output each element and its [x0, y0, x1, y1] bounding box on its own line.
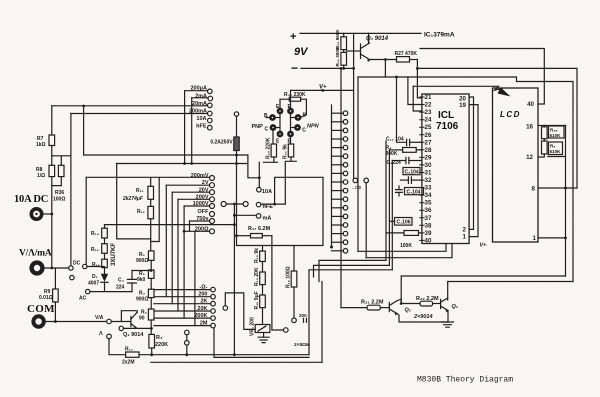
wire pin12 east: [548, 156, 566, 158]
transistor Q4 9014: [361, 43, 371, 62]
wire V terminal to wiper contact: [45, 267, 69, 269]
wire IC bottom rail B: [366, 244, 452, 258]
battery 9V plus rail: [300, 32, 369, 34]
svg-text:V/A: V/A: [95, 315, 104, 321]
contact hFE right: [256, 177, 323, 207]
svg-text:0.2A250V: 0.2A250V: [210, 140, 233, 146]
junction Q2 collector rail: [400, 302, 403, 305]
svg-text:16: 16: [526, 124, 533, 131]
svg-text:10A DC: 10A DC: [14, 194, 48, 205]
svg-text:Q₂: Q₂: [405, 308, 411, 314]
svg-text:C: C: [302, 128, 306, 134]
wire DC contact riser upper to fuse line: [84, 106, 248, 155]
wire L1 west: [319, 260, 386, 281]
svg-text:R27 470K: R27 470K: [395, 51, 418, 57]
svg-text:30: 30: [425, 162, 432, 169]
svg-text:10A: 10A: [262, 189, 272, 195]
svg-text:100Ω: 100Ω: [53, 197, 65, 203]
svg-text:C₇104: C₇104: [407, 190, 421, 196]
battery 9V minus rail: [301, 67, 354, 69]
wire left vertical c: [391, 161, 393, 270]
contact 2M: [154, 323, 215, 328]
svg-text:C₆224: C₆224: [387, 160, 401, 166]
wire pin16 east to railP riser: [544, 125, 565, 127]
wire battery mid tap to Q4 base: [347, 50, 361, 52]
resistor R31: [285, 137, 296, 204]
svg-text:hFE: hFE: [263, 204, 274, 210]
ground below VR1: [258, 337, 269, 342]
svg-text:+: +: [290, 31, 296, 43]
svg-text:Q₁ 9014: Q₁ 9014: [123, 332, 144, 338]
svg-text:R₁₅: R₁₅: [91, 247, 100, 253]
svg-text:2V: 2V: [202, 180, 209, 186]
resistor R33 510K: [538, 141, 547, 157]
ground Q2 Q3: [442, 322, 454, 327]
junction minus drop: [340, 67, 343, 70]
svg-text:200mA: 200mA: [189, 108, 207, 114]
svg-text:↔/10: ↔/10: [351, 185, 362, 190]
resistor R28 510K: [542, 126, 548, 142]
wire R18 bus: [237, 177, 324, 245]
svg-text:900Ω: 900Ω: [136, 297, 148, 303]
resistor R9: [53, 268, 59, 322]
contact 2mA: [192, 96, 213, 101]
capacitor C4 224: [128, 269, 153, 292]
svg-text:22: 22: [425, 102, 432, 109]
svg-text:LCD: LCD: [500, 110, 521, 119]
contact 200: [154, 294, 215, 299]
svg-text:220K: 220K: [155, 342, 168, 348]
resistor R26 860K: [341, 33, 347, 49]
contact 200V: [178, 197, 215, 202]
svg-text:2×8ΩM: 2×8ΩM: [294, 342, 310, 348]
transistor socket pad E2 left: [278, 132, 282, 136]
divider resistor R6: [148, 270, 154, 289]
svg-text:27: 27: [425, 139, 432, 146]
wire minus rail east: [417, 68, 577, 188]
svg-text:224: 224: [116, 285, 125, 291]
wire L3 west: [309, 270, 392, 355]
contact ohm top: [154, 287, 215, 292]
potentiometer VR1 200: [255, 325, 270, 338]
svg-text:3XU7KF: 3XU7KF: [111, 243, 117, 266]
contact 10A: [208, 118, 213, 123]
svg-text:2mA: 2mA: [195, 93, 207, 99]
svg-text:200: 200: [198, 292, 207, 298]
svg-text:2x2M: 2x2M: [122, 360, 135, 366]
svg-text:DC: DC: [73, 261, 81, 267]
svg-text:R₁₉ 100Ω: R₁₉ 100Ω: [286, 266, 292, 288]
contact 200mA: [71, 111, 212, 116]
junction bus bottom: [330, 246, 333, 249]
wire Q4 emitter to R27: [369, 59, 397, 61]
wire 200ohm drop: [194, 231, 196, 325]
svg-text:200V: 200V: [196, 194, 209, 200]
svg-text:-Ω-: -Ω-: [199, 284, 207, 290]
wire Q2 emitter to ground rail: [397, 314, 447, 323]
svg-text:R₂₁ 2.2M: R₂₁ 2.2M: [361, 300, 384, 306]
contact AC lower: [70, 275, 74, 279]
transistor socket pad E2 right: [288, 132, 292, 136]
svg-text:20V: 20V: [199, 187, 209, 193]
capacitor C6 224: [392, 157, 422, 163]
wire left vertical b: [388, 150, 390, 266]
wire socket C stub left: [275, 127, 280, 129]
svg-text:1/Ω: 1/Ω: [37, 173, 45, 179]
resistor R10 2x2M: [109, 339, 309, 358]
svg-text:9V: 9V: [294, 46, 309, 58]
wire R14 top rail to mA drop: [105, 224, 235, 226]
contact 200uA: [185, 89, 213, 94]
svg-text:750v: 750v: [196, 216, 209, 222]
svg-text:35: 35: [425, 200, 432, 207]
resistor R7: [49, 106, 55, 166]
wire V+ rail: [291, 89, 354, 91]
svg-text:−: −: [291, 61, 298, 75]
svg-text:B: B: [303, 113, 307, 119]
diode D1 4007: [87, 267, 132, 292]
resistor R22 2.2M: [401, 301, 440, 306]
svg-text:200K: 200K: [194, 313, 207, 319]
svg-text:V+: V+: [480, 243, 488, 249]
resistor R19 100: [291, 246, 297, 318]
capacitor C5 106 boxed: [389, 218, 412, 226]
resistor R18: [260, 246, 266, 273]
op-amp U1 ICL7106 box: [422, 94, 469, 244]
svg-text:32: 32: [425, 177, 432, 184]
resistor R4 220K: [149, 334, 155, 355]
svg-text:R₁₂: R₁₂: [137, 209, 145, 215]
contact 200K: [154, 316, 215, 321]
resistor R15b: [260, 295, 266, 325]
svg-text:2M: 2M: [200, 321, 208, 327]
wire 10A terminal to shunt: [44, 213, 52, 215]
contact wiper lower: [223, 293, 255, 356]
divider resistor R11: [148, 178, 154, 206]
wire pin21 stub: [417, 97, 422, 99]
svg-text:R₁₄: R₁₄: [91, 231, 100, 237]
resistor R23 100K: [386, 231, 422, 236]
svg-text:Q₃: Q₃: [452, 304, 458, 310]
junction V+: [321, 89, 324, 92]
resistor R36: [52, 156, 64, 186]
transistor Q3: [441, 298, 449, 313]
wire 1000V drop: [183, 206, 185, 318]
svg-text:V+: V+: [319, 85, 327, 91]
svg-text:40: 40: [527, 101, 534, 108]
junction minus-vplus: [352, 67, 355, 70]
transistor socket pad C right: [295, 125, 299, 129]
contact mid pair: [185, 330, 190, 355]
svg-text:R36: R36: [55, 190, 64, 196]
svg-text:AC: AC: [79, 296, 87, 302]
wire 20mA line: [52, 105, 206, 107]
svg-text:ICL: ICL: [438, 110, 454, 121]
svg-text:37: 37: [425, 215, 432, 222]
contact 20V: [172, 190, 214, 195]
svg-text:20K: 20K: [197, 306, 207, 312]
wire socket B stub left: [275, 117, 280, 119]
transistor Q1 9014: [111, 311, 137, 329]
svg-text:B: B: [264, 113, 268, 119]
label box R33: [549, 142, 563, 155]
svg-text:R₃₀ 230K: R₃₀ 230K: [284, 92, 306, 98]
wire 200mV feeder drop: [117, 164, 151, 239]
wire near-column vertical B: [365, 183, 367, 258]
svg-text:510K: 510K: [550, 149, 562, 154]
svg-text:300K: 300K: [386, 151, 398, 157]
wire 200mA vertical: [70, 114, 72, 266]
svg-text:29: 29: [425, 154, 432, 161]
wire rail 75 band top: [358, 77, 573, 282]
svg-text:36: 36: [425, 207, 432, 214]
resistor R30 230K: [280, 97, 306, 117]
resistor R16: [102, 253, 108, 268]
wire bottom rail 362: [151, 361, 322, 363]
LCD pin numbers: [526, 101, 536, 242]
resistor R21 2.2M: [341, 305, 389, 310]
contact R17 east: [284, 328, 289, 333]
svg-text:1: 1: [533, 235, 537, 242]
capacitor C9 104 boxed: [401, 168, 422, 184]
wire R4 junction: [151, 354, 153, 357]
svg-text:510K: 510K: [550, 133, 562, 138]
wire 20V drop: [171, 192, 173, 304]
terminal 10A DC: [31, 209, 41, 219]
transistor socket pad E left: [278, 109, 282, 113]
svg-text:R₁₇ 6.2M: R₁₇ 6.2M: [248, 226, 271, 232]
svg-text:90: 90: [139, 316, 145, 322]
wire V+ drop from battery: [353, 33, 355, 178]
contact mA right: [233, 214, 261, 219]
junction pin1: [564, 237, 567, 240]
contact 10A right: [257, 162, 262, 192]
junction R27 rail: [416, 67, 419, 70]
svg-text:200: 200: [299, 313, 307, 318]
svg-text:C₁₂ 104: C₁₂ 104: [386, 137, 404, 143]
wire IC bottom rail A: [358, 244, 446, 252]
wire socket E-E left: [279, 114, 281, 132]
divider resistor R3: [148, 289, 154, 309]
svg-text:34: 34: [425, 192, 432, 199]
svg-text:C: C: [265, 127, 269, 133]
svg-text:20mA: 20mA: [192, 101, 207, 107]
svg-text:100K: 100K: [400, 243, 412, 249]
svg-text:COM: COM: [27, 303, 55, 315]
svg-text:C₁106: C₁106: [397, 220, 411, 226]
svg-text:R₂₂ 2.2M: R₂₂ 2.2M: [416, 296, 439, 302]
transistor socket pad C left: [271, 125, 275, 129]
svg-text:2×9014: 2×9014: [413, 314, 433, 320]
svg-text:24: 24: [425, 117, 432, 124]
wire COM rail: [46, 321, 107, 323]
wire socket C stub right: [291, 127, 296, 129]
svg-text:9k0: 9k0: [137, 277, 146, 283]
svg-text:28: 28: [425, 147, 432, 154]
resistor R8: [49, 156, 71, 177]
svg-text:R₁₆: R₁₆: [92, 262, 100, 268]
transistor socket pad B left: [266, 115, 275, 119]
capacitor C12 104: [397, 77, 422, 146]
wire Q2 collector: [397, 299, 402, 304]
svg-text:2K: 2K: [200, 299, 207, 305]
svg-text:D₁: D₁: [92, 274, 98, 280]
svg-text:OFF: OFF: [198, 209, 210, 215]
svg-text:33: 33: [425, 185, 432, 192]
svg-text:19: 19: [459, 102, 466, 109]
wire pin23 feed: [413, 86, 422, 111]
divider resistor R2: [148, 251, 154, 270]
svg-text:1: 1: [463, 234, 467, 241]
junction railP riser top: [564, 187, 567, 190]
svg-text:R₁₀: R₁₀: [125, 347, 133, 353]
wire 750V drop: [189, 221, 191, 231]
svg-text:NPN: NPN: [307, 124, 320, 130]
resistor R13 20K: [260, 272, 266, 295]
divider resistor R12: [148, 206, 154, 251]
wire 200mV tap drop: [151, 178, 159, 242]
IC pin numbers left: [425, 94, 432, 244]
capacitor 200 marks: [304, 318, 307, 322]
resistor R24 300K: [389, 148, 422, 153]
transistor socket pad B right: [296, 115, 300, 119]
wire railP: [401, 276, 565, 304]
wire R27 to IC pin21: [416, 60, 418, 98]
contact R19 bottom: [292, 318, 297, 323]
svg-text:M830B Theory Diagram: M830B Theory Diagram: [417, 376, 513, 385]
transistor Q2: [389, 301, 397, 316]
wire rail 86 band bottom with arrow into LCD: [413, 86, 502, 90]
contact 200mV: [86, 176, 214, 181]
wire bottom rail to railQ: [321, 282, 323, 363]
svg-text:R₂₉ 220K: R₂₉ 220K: [266, 137, 272, 159]
svg-text:R₂₅ 390K: R₂₅ 390K: [335, 46, 340, 66]
svg-text:C₉104: C₉104: [405, 170, 419, 176]
wire 200V drop: [177, 199, 179, 311]
svg-text:8: 8: [532, 186, 536, 193]
wire pin22 feed: [408, 77, 422, 105]
svg-text:V/Λ/mA: V/Λ/mA: [19, 249, 52, 259]
wire left vertical a: [385, 141, 387, 260]
wire shunt down to V rail: [51, 177, 53, 268]
svg-text:38: 38: [425, 222, 432, 229]
resistor R27 470K: [397, 57, 418, 62]
svg-text:25: 25: [425, 124, 432, 131]
svg-text:4007: 4007: [88, 281, 99, 287]
wire 2M contact drop: [214, 328, 309, 357]
LCD box: [493, 88, 539, 242]
svg-text:R₁₅ 9μF: R₁₅ 9μF: [254, 291, 260, 309]
wire socket B stub right: [291, 117, 296, 119]
contact V/A: [107, 319, 112, 324]
svg-text:Q₄ 9014: Q₄ 9014: [366, 36, 389, 42]
wire LCD pin1: [538, 237, 566, 239]
svg-text:1000V: 1000V: [193, 201, 209, 207]
wire Q4 collector to annotation: [369, 33, 422, 43]
svg-text:mA: mA: [263, 216, 272, 222]
wire 2mA drop: [191, 98, 193, 164]
terminal COM: [33, 316, 43, 326]
contact DC: [83, 264, 87, 268]
svg-text:200Ω: 200Ω: [195, 226, 209, 232]
wire 2V drop: [165, 185, 167, 297]
wire from minus down left of column: [340, 68, 342, 307]
svg-text:Λ: Λ: [99, 331, 103, 337]
svg-text:2k274μF: 2k274μF: [122, 196, 144, 202]
svg-text:26: 26: [425, 132, 432, 139]
wire LCD pin8: [538, 187, 577, 189]
svg-text:2: 2: [463, 227, 467, 234]
IC pin numbers right: [459, 95, 466, 240]
svg-text:R₉: R₉: [550, 144, 555, 149]
capacitor C7 104 boxed: [396, 186, 424, 196]
wire Q3 emitter down: [447, 311, 449, 323]
wire L2 west: [314, 265, 390, 277]
svg-text:10A: 10A: [196, 116, 206, 122]
wiper contact pair middle column: [353, 178, 369, 183]
resistor R14: [102, 225, 108, 238]
resistor R25 390K: [341, 50, 347, 69]
fuse 0.2A 250V: [234, 112, 239, 246]
wire railR: [448, 282, 573, 301]
IC pin ticks left: [420, 97, 424, 240]
wire emitter drop: [384, 60, 386, 78]
wire NPN E to V+ rail: [290, 90, 292, 108]
svg-text:R₄: R₄: [156, 335, 163, 341]
svg-text:VR₁ 200: VR₁ 200: [250, 317, 256, 336]
svg-text:40: 40: [425, 237, 432, 244]
svg-text:7106: 7106: [436, 121, 459, 132]
contact AC: [86, 289, 90, 293]
wire DC contact riser lower: [85, 177, 87, 264]
svg-text:R₂₈: R₂₈: [550, 128, 558, 133]
svg-text:200mV: 200mV: [191, 173, 209, 179]
svg-text:39: 39: [425, 230, 432, 237]
wire pin20 to pin2: [469, 97, 473, 229]
wire socket E-E right: [290, 114, 292, 132]
svg-text:200μA: 200μA: [190, 86, 207, 92]
wire railP riser: [565, 126, 567, 277]
wire rail 48 to LCD pin40: [420, 49, 544, 105]
transistor socket pad E right: [288, 109, 292, 113]
svg-text:C₄: C₄: [118, 278, 125, 284]
svg-text:R₂₆ 860K: R₂₆ 860K: [335, 29, 340, 49]
contact Q1 emitter line: [119, 326, 153, 330]
resistor R17 6.2M: [237, 234, 272, 238]
wire fuse bottom bus: [117, 155, 260, 178]
contact V wiper: [69, 266, 73, 270]
svg-text:R₃₁ 9k: R₃₁ 9k: [283, 144, 289, 159]
wire LCD pin16 stub: [538, 125, 544, 127]
svg-text:R₁₁: R₁₁: [136, 188, 144, 194]
wire R17 east drop: [272, 236, 284, 330]
contact 20K: [154, 309, 215, 314]
contact 750V: [190, 219, 215, 224]
contact hFE: [208, 125, 213, 130]
contact OFF: [210, 212, 215, 217]
svg-text:R₁₃ 20K: R₁₃ 20K: [254, 267, 260, 286]
terminal V/ohm/mA: [32, 263, 43, 274]
switch column contacts x17: [332, 111, 348, 253]
contact 20mA: [205, 103, 212, 108]
contact 200ohm: [184, 229, 214, 234]
svg-text:12: 12: [526, 154, 533, 161]
svg-text:PNP: PNP: [252, 124, 264, 130]
wire pin19 to pin1: [469, 105, 478, 237]
svg-text:31: 31: [425, 170, 432, 177]
svg-text:R₁₈ 9k: R₁₈ 9k: [254, 248, 260, 263]
resistor R15: [102, 238, 108, 253]
